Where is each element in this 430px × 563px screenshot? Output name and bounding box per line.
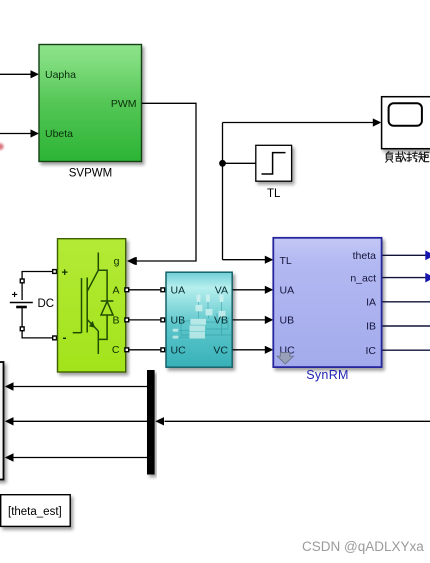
inverter bridge block — [58, 239, 136, 372]
partial block clipped at left edge — [0, 362, 4, 480]
port connector square (DC +) — [20, 278, 25, 283]
block name label 负载转矩 (vector strokes) — [386, 152, 429, 163]
IGBT with anti-parallel diode icon — [73, 253, 114, 355]
wire: VA output to SynRM UA — [233, 286, 274, 294]
wire: input signal into SVPWM Ubeta — [0, 129, 39, 137]
wire: TL net branch to scope — [223, 118, 382, 126]
wire: inverter phase A to measurement UA — [129, 289, 161, 291]
wire: SynRM n_act output — [383, 277, 427, 279]
svg-text:TL: TL — [267, 188, 281, 200]
motor block SynRM — [273, 238, 381, 382]
port connector square (inverter -) — [52, 335, 57, 340]
arrowhead of g input wire — [127, 257, 136, 265]
wire: SynRM IC output — [383, 349, 430, 351]
svg-text:UB: UB — [280, 315, 295, 327]
svg-text:[theta_est]: [theta_est] — [8, 506, 62, 518]
subsystem block SVPWM — [39, 45, 142, 162]
battery short plate — [16, 306, 27, 309]
From tag [theta_est] — [1, 495, 71, 527]
svg-text:Uapha: Uapha — [45, 69, 76, 81]
svg-text:IB: IB — [366, 321, 376, 333]
wire: TL step output to junction — [223, 162, 256, 164]
svg-text:UA: UA — [171, 285, 186, 297]
red badge mark clipped at left edge — [0, 143, 4, 150]
svg-text:CSDN @qADLXYxa: CSDN @qADLXYxa — [302, 539, 424, 554]
svg-text:SynRM: SynRM — [306, 368, 348, 382]
DC voltage source — [10, 269, 57, 341]
step source block TL — [256, 145, 292, 181]
svg-text:g: g — [114, 256, 120, 268]
svg-text:n_act: n_act — [350, 272, 376, 284]
svg-text:VC: VC — [213, 345, 228, 357]
battery long plate — [10, 302, 33, 304]
wire: SynRM theta output — [383, 254, 427, 256]
wire: input signal into SVPWM Uapha — [0, 70, 39, 78]
wire: VB output to SynRM UB — [233, 316, 274, 324]
wire: inverter phase C to measurement UC — [129, 349, 161, 351]
svg-text:IA: IA — [366, 297, 376, 309]
voltage measurement block — [166, 272, 232, 367]
svg-text:PWM: PWM — [111, 98, 137, 110]
svg-text:A: A — [112, 285, 119, 297]
svg-text:-: - — [63, 331, 67, 345]
arrowhead of n_act wire at edge — [425, 273, 430, 283]
svg-text:theta: theta — [353, 250, 377, 262]
demux bar — [147, 370, 155, 475]
wire: feedback signal from right edge into demux — [155, 417, 430, 425]
port connector square (DC -) — [20, 326, 25, 331]
junction dot on TL net — [219, 160, 226, 167]
svg-text:TL: TL — [280, 255, 292, 267]
svg-text:VB: VB — [214, 315, 228, 327]
svg-text:VA: VA — [215, 285, 228, 297]
wire: demux output 1 to left block — [5, 382, 147, 390]
wire: DC + terminal to inverter + — [22, 272, 55, 301]
port connector squares (inverter A,B,C and measurement UA,UB,UC) — [124, 287, 165, 352]
svg-text:SVPWM: SVPWM — [69, 168, 112, 180]
gray variant badge (down arrow) — [277, 353, 293, 364]
wire: SynRM IA output — [383, 301, 430, 303]
wire: PWM output routed to inverter gate port g — [128, 103, 196, 265]
wire: VC output to SynRM UC — [233, 346, 274, 354]
wire: inverter phase B to measurement UB — [129, 319, 161, 321]
svg-text:+: + — [12, 289, 18, 301]
svg-text:UC: UC — [171, 345, 187, 357]
wire: TL net vertical segment — [222, 123, 224, 260]
wire: TL net branch to SynRM TL input — [223, 256, 274, 264]
svg-text:UA: UA — [280, 285, 295, 297]
svg-text:Ubeta: Ubeta — [45, 128, 73, 140]
wire: demux output 2 to left block — [5, 417, 147, 425]
port connector square (inverter +) — [52, 269, 57, 274]
arrowhead of theta wire at edge — [425, 250, 430, 260]
svg-text:IC: IC — [366, 345, 377, 357]
wire: demux output 3 to left block — [5, 453, 147, 461]
wire: SynRM IB output — [383, 325, 430, 327]
svg-text:UB: UB — [171, 315, 186, 327]
svg-text:B: B — [112, 315, 119, 327]
svg-text:C: C — [112, 344, 120, 356]
svg-text:DC: DC — [38, 298, 55, 310]
scope block (load torque scope) — [382, 97, 430, 149]
wire: DC - terminal to inverter - — [22, 307, 55, 338]
svg-text:+: + — [62, 267, 68, 279]
faint inner screenshot image — [173, 295, 232, 339]
